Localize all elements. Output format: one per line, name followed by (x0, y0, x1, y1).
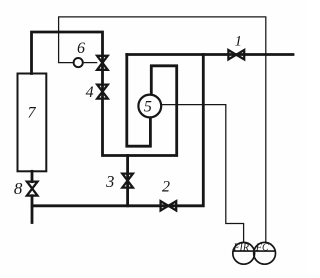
wire main inlet pipe y=54.5 (127, 53, 293, 56)
vessel 7 (18, 74, 47, 172)
signal wire: circle 5 right, down, jog to FIR (161, 105, 243, 243)
valve V1 (horizontal) (228, 50, 244, 59)
svg-text:FC: FC (255, 243, 269, 254)
svg-text:5: 5 (144, 98, 152, 115)
wire valve-3 branch x=127.6 (126, 156, 129, 206)
wire vessel outlet to valve 8 (31, 171, 34, 181)
pilot circle at valve 6 (74, 58, 83, 67)
valve V8 (vertical) (27, 182, 38, 196)
wire bottom pipe + right riser x=203.3 (32, 55, 203, 206)
wire drain stub below valve 8 (31, 196, 34, 223)
signal wire: pilot circle to valve 6 (83, 62, 98, 64)
valve V3 (vertical) (122, 174, 133, 188)
svg-text:4: 4 (86, 84, 94, 101)
svg-text:3: 3 (105, 172, 114, 191)
instrument FC (254, 242, 276, 264)
instrument chord line (233, 250, 276, 252)
valve V2 (horizontal) (161, 201, 177, 210)
svg-text:6: 6 (77, 40, 85, 57)
svg-text:1: 1 (234, 34, 242, 50)
svg-text:8: 8 (14, 179, 23, 198)
svg-text:FIR: FIR (232, 243, 249, 254)
valve V4 (vertical) (97, 85, 108, 99)
valve V6 (vertical) (97, 56, 108, 70)
wire coil outer left + U bottom + up to heater circle bottom (127, 55, 151, 147)
heater/pump circle 5 (138, 95, 161, 118)
signal wire: pilot circle left, up, across top, down to FC (59, 17, 266, 243)
wire coil from circle top over and down, bottom run, valve column, top-left run, down to vessel (32, 32, 177, 156)
svg-text:7: 7 (28, 105, 37, 122)
svg-text:2: 2 (162, 178, 170, 195)
instrument FIR (233, 242, 255, 264)
